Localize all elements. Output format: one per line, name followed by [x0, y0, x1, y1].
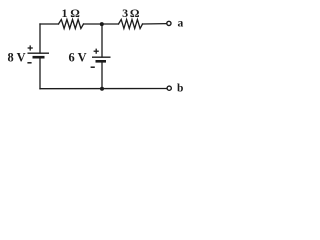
wire bottom horizontal — [40, 88, 167, 90]
svg-text:Ω: Ω — [70, 6, 80, 20]
junction dot top — [100, 22, 104, 26]
wire left vertical (top) — [39, 24, 41, 53]
svg-text:3: 3 — [122, 6, 128, 20]
terminal b (open circle) — [167, 86, 171, 90]
wire to terminal a — [143, 23, 167, 25]
wire top-middle horizontal — [84, 23, 119, 25]
svg-text:Ω: Ω — [130, 6, 140, 20]
battery 6V: plus sign — [94, 49, 99, 54]
battery 6V: long plate (+) — [92, 56, 111, 58]
svg-text:6 V: 6 V — [69, 51, 87, 65]
junction dot bottom — [100, 87, 104, 91]
svg-text:1: 1 — [62, 6, 68, 20]
terminal a (open circle) — [167, 21, 171, 25]
resistor 1 ohm — [59, 20, 84, 29]
svg-text:a: a — [178, 17, 184, 29]
svg-text:8 V: 8 V — [8, 50, 26, 64]
wire top-left horizontal — [40, 23, 59, 25]
battery 8V: minus sign — [27, 62, 31, 64]
battery 6V: short plate (-) — [96, 60, 107, 63]
resistor 3 ohm — [119, 20, 143, 29]
battery 6V: minus sign — [91, 66, 95, 68]
wire middle vertical (top, 6V branch) — [101, 24, 103, 57]
svg-text:b: b — [177, 82, 183, 94]
wire middle vertical (bottom, 6V branch) — [101, 61, 103, 88]
battery 8V: plus sign — [28, 45, 33, 50]
battery 8V: short plate (-) — [33, 56, 45, 59]
battery 8V: long plate (+) — [28, 52, 50, 54]
wire left vertical (bottom) — [39, 57, 41, 88]
